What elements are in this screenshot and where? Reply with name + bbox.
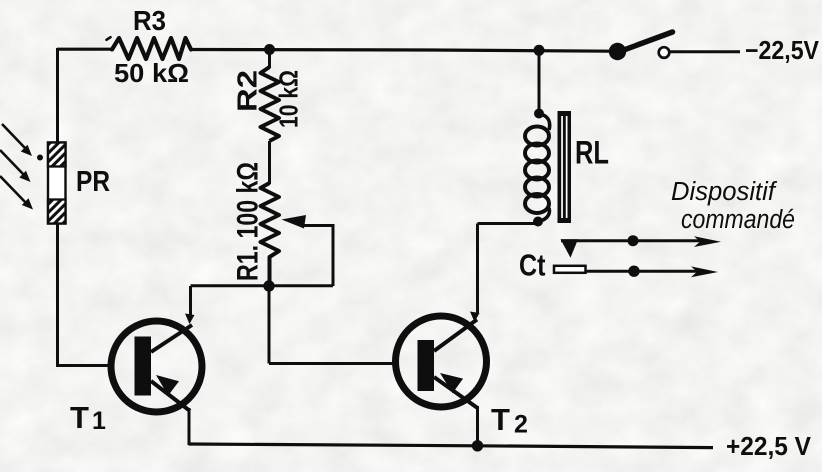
label +22,5 V [726,433,811,461]
value 50 kΩ [114,58,189,88]
contact Ct fixed contact [554,266,586,273]
wiper arrow of R1 [282,215,334,286]
transistor T2 [396,316,487,408]
potentiometer R1 [261,183,280,286]
label Ct [519,248,546,283]
label PR [76,166,110,198]
contact Ct moving blade triangle [561,239,579,257]
svg-text:RL: RL [575,135,609,171]
svg-text:R1. 100 kΩ: R1. 100 kΩ [232,162,265,281]
node coil top [534,109,544,119]
label R3 [133,5,166,36]
wire T2 collector branch [470,224,480,323]
light arrow 2 [0,150,31,182]
light arrow 3 [0,176,33,210]
label RL [575,135,609,171]
contact Ct top line [561,236,721,247]
node B (R1 bottom junction) [263,280,274,291]
resistor R2 [261,67,280,141]
wire bottom rail [189,444,714,448]
svg-text:+22,5 V: +22,5 V [726,433,811,461]
resistor R3 [107,37,192,59]
svg-text:Ct: Ct [519,248,546,283]
wire coupling horizontal [191,284,334,287]
svg-text:−22,5V: −22,5V [745,37,819,65]
svg-text:T: T [491,402,510,437]
label R1. 100 kΩ [232,162,265,281]
svg-text:Dispositif: Dispositif [671,178,778,206]
label Dispositif commandé [671,178,795,234]
wire to -22.5V [670,50,741,53]
wire T1 collector branch [185,286,195,324]
node on Ct bottom line [628,266,639,277]
label -22,5V [745,37,819,65]
label R2 [232,70,263,112]
wire T2 emitter to rail [476,406,479,445]
wire T1 emitter to rail [188,408,191,445]
relay core [558,111,572,223]
node coil bottom [533,217,543,227]
svg-text:10 kΩ: 10 kΩ [274,70,304,128]
switch open terminal [659,47,670,58]
svg-text:2: 2 [514,411,528,439]
svg-text:PR: PR [76,166,110,198]
wire RL bottom to T2 collector [478,222,539,225]
value 10 kΩ [274,70,304,128]
switch lever [613,32,673,54]
svg-text:R3: R3 [133,5,166,36]
svg-text:50 kΩ: 50 kΩ [114,58,189,88]
svg-text:T: T [70,400,89,435]
svg-text:1: 1 [92,407,106,435]
label T1 [70,400,106,435]
wire RL top stub [538,50,541,114]
svg-text:R2: R2 [232,70,263,112]
wire T1 base horizontal [56,364,113,367]
node A (R2 top junction) [264,44,275,55]
wire top rail [57,49,611,51]
dot near PR [37,155,43,161]
switch pivot [609,43,626,60]
node C (T2 emitter junction) [472,440,483,451]
wire R2 to R1 [268,141,271,184]
label T2 [491,402,528,439]
relay coil RL [525,114,550,222]
wire left vertical lower [56,223,59,367]
photoresistor PR [48,143,66,224]
contact Ct bottom line [586,266,719,277]
wire to T2 base [269,286,397,364]
node D (RL top junction) [534,45,545,56]
node on Ct top line [628,235,639,246]
light arrow 1 [2,124,32,156]
wire R2 top stub [268,50,271,69]
wire left vertical upper [56,48,59,143]
transistor T1 [111,321,202,412]
svg-text:commandé: commandé [681,206,795,234]
